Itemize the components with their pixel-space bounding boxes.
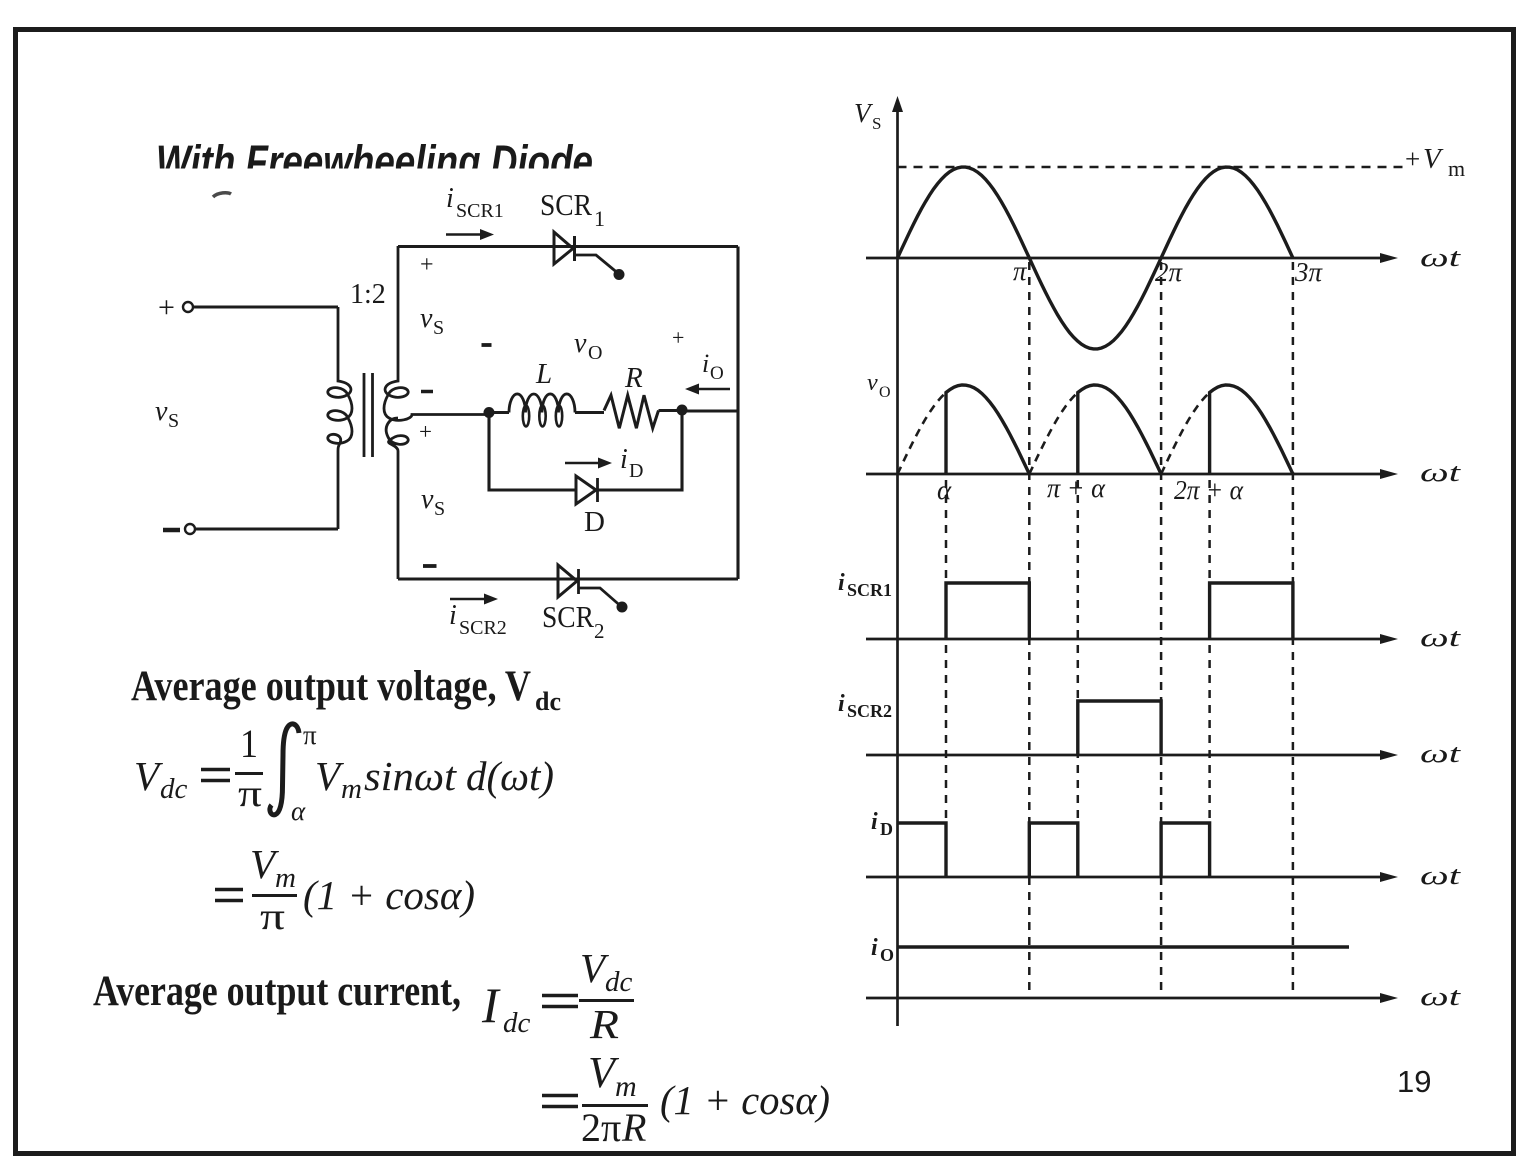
svg-text:2: 2 — [581, 1105, 601, 1150]
iSCR1 axis wt — [866, 623, 1461, 652]
svg-text:ωt: ωt — [1420, 458, 1461, 487]
inductor L — [509, 394, 575, 427]
label vo — [574, 328, 602, 364]
label vs source — [155, 396, 179, 432]
svg-text:α: α — [291, 796, 306, 826]
svg-text:m: m — [615, 1070, 637, 1103]
dashed gridline pi — [1028, 262, 1031, 996]
svg-text:V: V — [134, 753, 163, 799]
transformer T1 secondary winding — [384, 246, 488, 579]
heading average output voltage — [131, 663, 561, 716]
label minus lower secondary — [423, 564, 437, 568]
svg-text:i: i — [449, 600, 457, 631]
svg-text:dc: dc — [160, 773, 188, 805]
svg-text:π: π — [1013, 256, 1028, 286]
svg-text:ωt: ωt — [1420, 982, 1461, 1011]
svg-text:+: + — [1405, 144, 1420, 174]
wire inductor to resistor — [575, 411, 604, 414]
iSCR2 pulse — [1078, 701, 1161, 755]
svg-text:L: L — [535, 358, 552, 390]
svg-text:R: R — [621, 1105, 646, 1150]
svg-text:d(ωt): d(ωt) — [466, 753, 554, 799]
label minus vo — [482, 343, 492, 347]
svg-text:m: m — [275, 862, 296, 894]
svg-text:m: m — [341, 773, 362, 805]
page number 19 — [1397, 1064, 1431, 1099]
waveform vertical axis — [892, 96, 903, 1026]
wire primary bottom — [195, 527, 338, 530]
label L — [535, 358, 552, 390]
svg-text:19: 19 — [1397, 1064, 1431, 1099]
label plus lower secondary — [419, 419, 432, 444]
svg-text:π: π — [260, 896, 285, 938]
svg-text:ωt: ωt — [1420, 739, 1461, 768]
label minus upper secondary — [421, 390, 433, 394]
label vo axis — [867, 370, 891, 401]
label 3pi — [1294, 257, 1324, 287]
vo solid arc 3 — [1210, 385, 1293, 474]
label SCR1 — [540, 187, 605, 231]
svg-text:i: i — [871, 935, 878, 961]
iD pulse 3 — [1161, 823, 1210, 877]
svg-text:Average output voltage, V: Average output voltage, V — [131, 663, 531, 710]
svg-text:D: D — [584, 506, 605, 538]
svg-text:1:2: 1:2 — [350, 279, 386, 310]
wire bottom rail — [398, 577, 738, 580]
svg-text:i: i — [702, 349, 709, 378]
svg-text:ωt: ωt — [1420, 861, 1461, 890]
svg-text:dc: dc — [605, 966, 633, 998]
dashed gridline pi+alpha — [1077, 480, 1080, 877]
formula Vdc integral — [134, 720, 554, 826]
svg-text:sinωt: sinωt — [364, 753, 458, 799]
svg-text:R: R — [624, 362, 643, 394]
label SCR2 — [542, 599, 605, 643]
svg-text:O: O — [710, 363, 724, 384]
label turns ratio 1:2 — [350, 279, 386, 310]
node plus input terminal — [158, 291, 193, 324]
iSCR2 axis wt — [866, 739, 1461, 768]
heading average output current — [93, 968, 461, 1015]
scan artifact mark — [213, 193, 231, 197]
svg-text:v: v — [574, 328, 587, 359]
svg-text:π: π — [303, 720, 317, 750]
svg-text:v: v — [867, 370, 878, 396]
vo dashed arc 1 — [898, 393, 947, 475]
vs sine curve — [898, 167, 1293, 349]
label 2pi — [1155, 257, 1184, 287]
svg-text:SCR1: SCR1 — [847, 580, 892, 600]
wire node A to inductor — [489, 411, 509, 414]
svg-text:SCR: SCR — [540, 187, 592, 222]
svg-text:V: V — [315, 753, 344, 799]
formula Vdc result — [215, 841, 475, 938]
label VS axis — [854, 98, 881, 133]
vo dashed arc 3 — [1161, 393, 1210, 475]
svg-text:+: + — [672, 325, 684, 350]
transformer T1 core — [364, 373, 373, 457]
svg-text:ωt: ωt — [1420, 243, 1461, 272]
svg-text:S: S — [168, 410, 179, 432]
svg-text:ωt: ωt — [1420, 623, 1461, 652]
iD pulse 2 — [1029, 823, 1078, 877]
iSCR1 pulse 2 — [1210, 583, 1293, 639]
label +Vm — [1405, 143, 1465, 181]
vo axis wt — [866, 458, 1461, 487]
svg-text:D: D — [880, 819, 893, 839]
svg-text:D: D — [629, 460, 643, 482]
label R — [624, 362, 643, 394]
svg-text:(1 + cosα): (1 + cosα) — [303, 872, 475, 918]
vs axis wt — [866, 243, 1461, 272]
vo solid arc 2 — [1078, 385, 1161, 474]
svg-text:SCR1: SCR1 — [456, 200, 504, 222]
svg-text:O: O — [588, 342, 602, 364]
label iO axis — [871, 935, 894, 965]
svg-text:O: O — [880, 945, 894, 965]
label iSCR1 axis — [838, 570, 892, 600]
wire node B to right rail — [682, 409, 738, 412]
svg-text:v: v — [421, 484, 434, 515]
svg-text:i: i — [871, 809, 878, 835]
label iSCR1 with arrow — [446, 183, 504, 240]
svg-text:O: O — [879, 384, 891, 401]
wire top rail — [398, 245, 738, 248]
svg-text:i: i — [838, 691, 845, 717]
svg-text:α: α — [937, 475, 952, 505]
svg-text:S: S — [433, 317, 444, 339]
node A junction dot — [484, 407, 495, 418]
label iD axis — [871, 809, 893, 839]
svg-text:i: i — [838, 570, 845, 596]
svg-text:dc: dc — [503, 1007, 531, 1039]
svg-text:SCR: SCR — [542, 599, 594, 634]
label iSCR2 axis — [838, 691, 892, 721]
thyristor SCR2 — [558, 565, 628, 613]
dashed gridline 3pi — [1292, 262, 1295, 996]
svg-text:dc: dc — [535, 687, 561, 716]
wire diode to node B — [598, 413, 683, 490]
svg-text:π + α: π + α — [1047, 473, 1106, 503]
vo dashed arc 2 — [1029, 393, 1078, 475]
svg-text:v: v — [420, 303, 433, 334]
resistor R — [604, 395, 659, 428]
label pi plus alpha — [1047, 473, 1106, 503]
wire primary top — [193, 305, 338, 308]
transformer T1 primary winding — [328, 307, 352, 529]
iO axis wt — [866, 982, 1461, 1011]
dashed gridline 2pi+alpha — [1208, 480, 1211, 877]
svg-text:i: i — [620, 444, 628, 475]
formula Idc — [481, 945, 634, 1047]
svg-text:+: + — [419, 419, 432, 444]
iO constant current line — [899, 945, 1350, 948]
wire right rail — [736, 247, 739, 580]
iD axis wt — [866, 861, 1461, 890]
svg-text:S: S — [872, 114, 881, 133]
title With Freewheeling Diode — [156, 136, 593, 187]
svg-text:+: + — [158, 291, 175, 324]
label plus vo — [672, 325, 684, 350]
wire resistor to node B — [659, 409, 683, 412]
node minus input terminal — [163, 524, 195, 534]
label iSCR2 with arrow — [449, 594, 507, 640]
Vm dashed level — [898, 166, 1405, 169]
label plus upper secondary — [420, 252, 434, 278]
svg-text:v: v — [155, 396, 168, 427]
label io with arrow — [685, 349, 730, 395]
svg-text:(1 + cosα): (1 + cosα) — [660, 1077, 830, 1123]
label pi — [1013, 256, 1028, 286]
svg-text:2π: 2π — [1155, 257, 1184, 287]
svg-text:1: 1 — [240, 721, 258, 766]
label iD with arrow — [565, 444, 643, 482]
label D — [584, 506, 605, 538]
svg-text:i: i — [446, 183, 454, 214]
svg-text:S: S — [434, 498, 445, 520]
iSCR1 pulse 1 — [946, 583, 1029, 639]
node B junction dot — [677, 405, 688, 416]
svg-text:R: R — [589, 1001, 619, 1047]
svg-text:π: π — [601, 1105, 621, 1150]
svg-text:SCR2: SCR2 — [847, 701, 892, 721]
svg-text:2: 2 — [594, 619, 605, 643]
wire node A down — [489, 413, 576, 491]
formula Idc result — [542, 1048, 830, 1150]
svg-text:Average output current,: Average output current, — [93, 968, 461, 1015]
vo solid arc 1 — [946, 385, 1029, 474]
svg-text:I: I — [481, 977, 501, 1033]
iD pulse 1 — [899, 823, 947, 877]
label alpha — [937, 475, 952, 505]
label 2pi plus alpha — [1174, 475, 1244, 505]
svg-text:3π: 3π — [1294, 257, 1324, 287]
label vs upper secondary — [420, 303, 444, 339]
svg-text:SCR2: SCR2 — [459, 617, 507, 639]
svg-text:π: π — [238, 773, 262, 815]
dashed gridline 2pi — [1160, 262, 1163, 996]
thyristor SCR1 — [554, 232, 625, 280]
svg-text:+: + — [420, 252, 434, 278]
svg-text:1: 1 — [594, 206, 605, 231]
label vs lower secondary — [421, 484, 445, 520]
svg-text:m: m — [1448, 156, 1465, 181]
dashed gridline alpha — [945, 480, 948, 877]
diode D freewheeling — [576, 476, 598, 504]
